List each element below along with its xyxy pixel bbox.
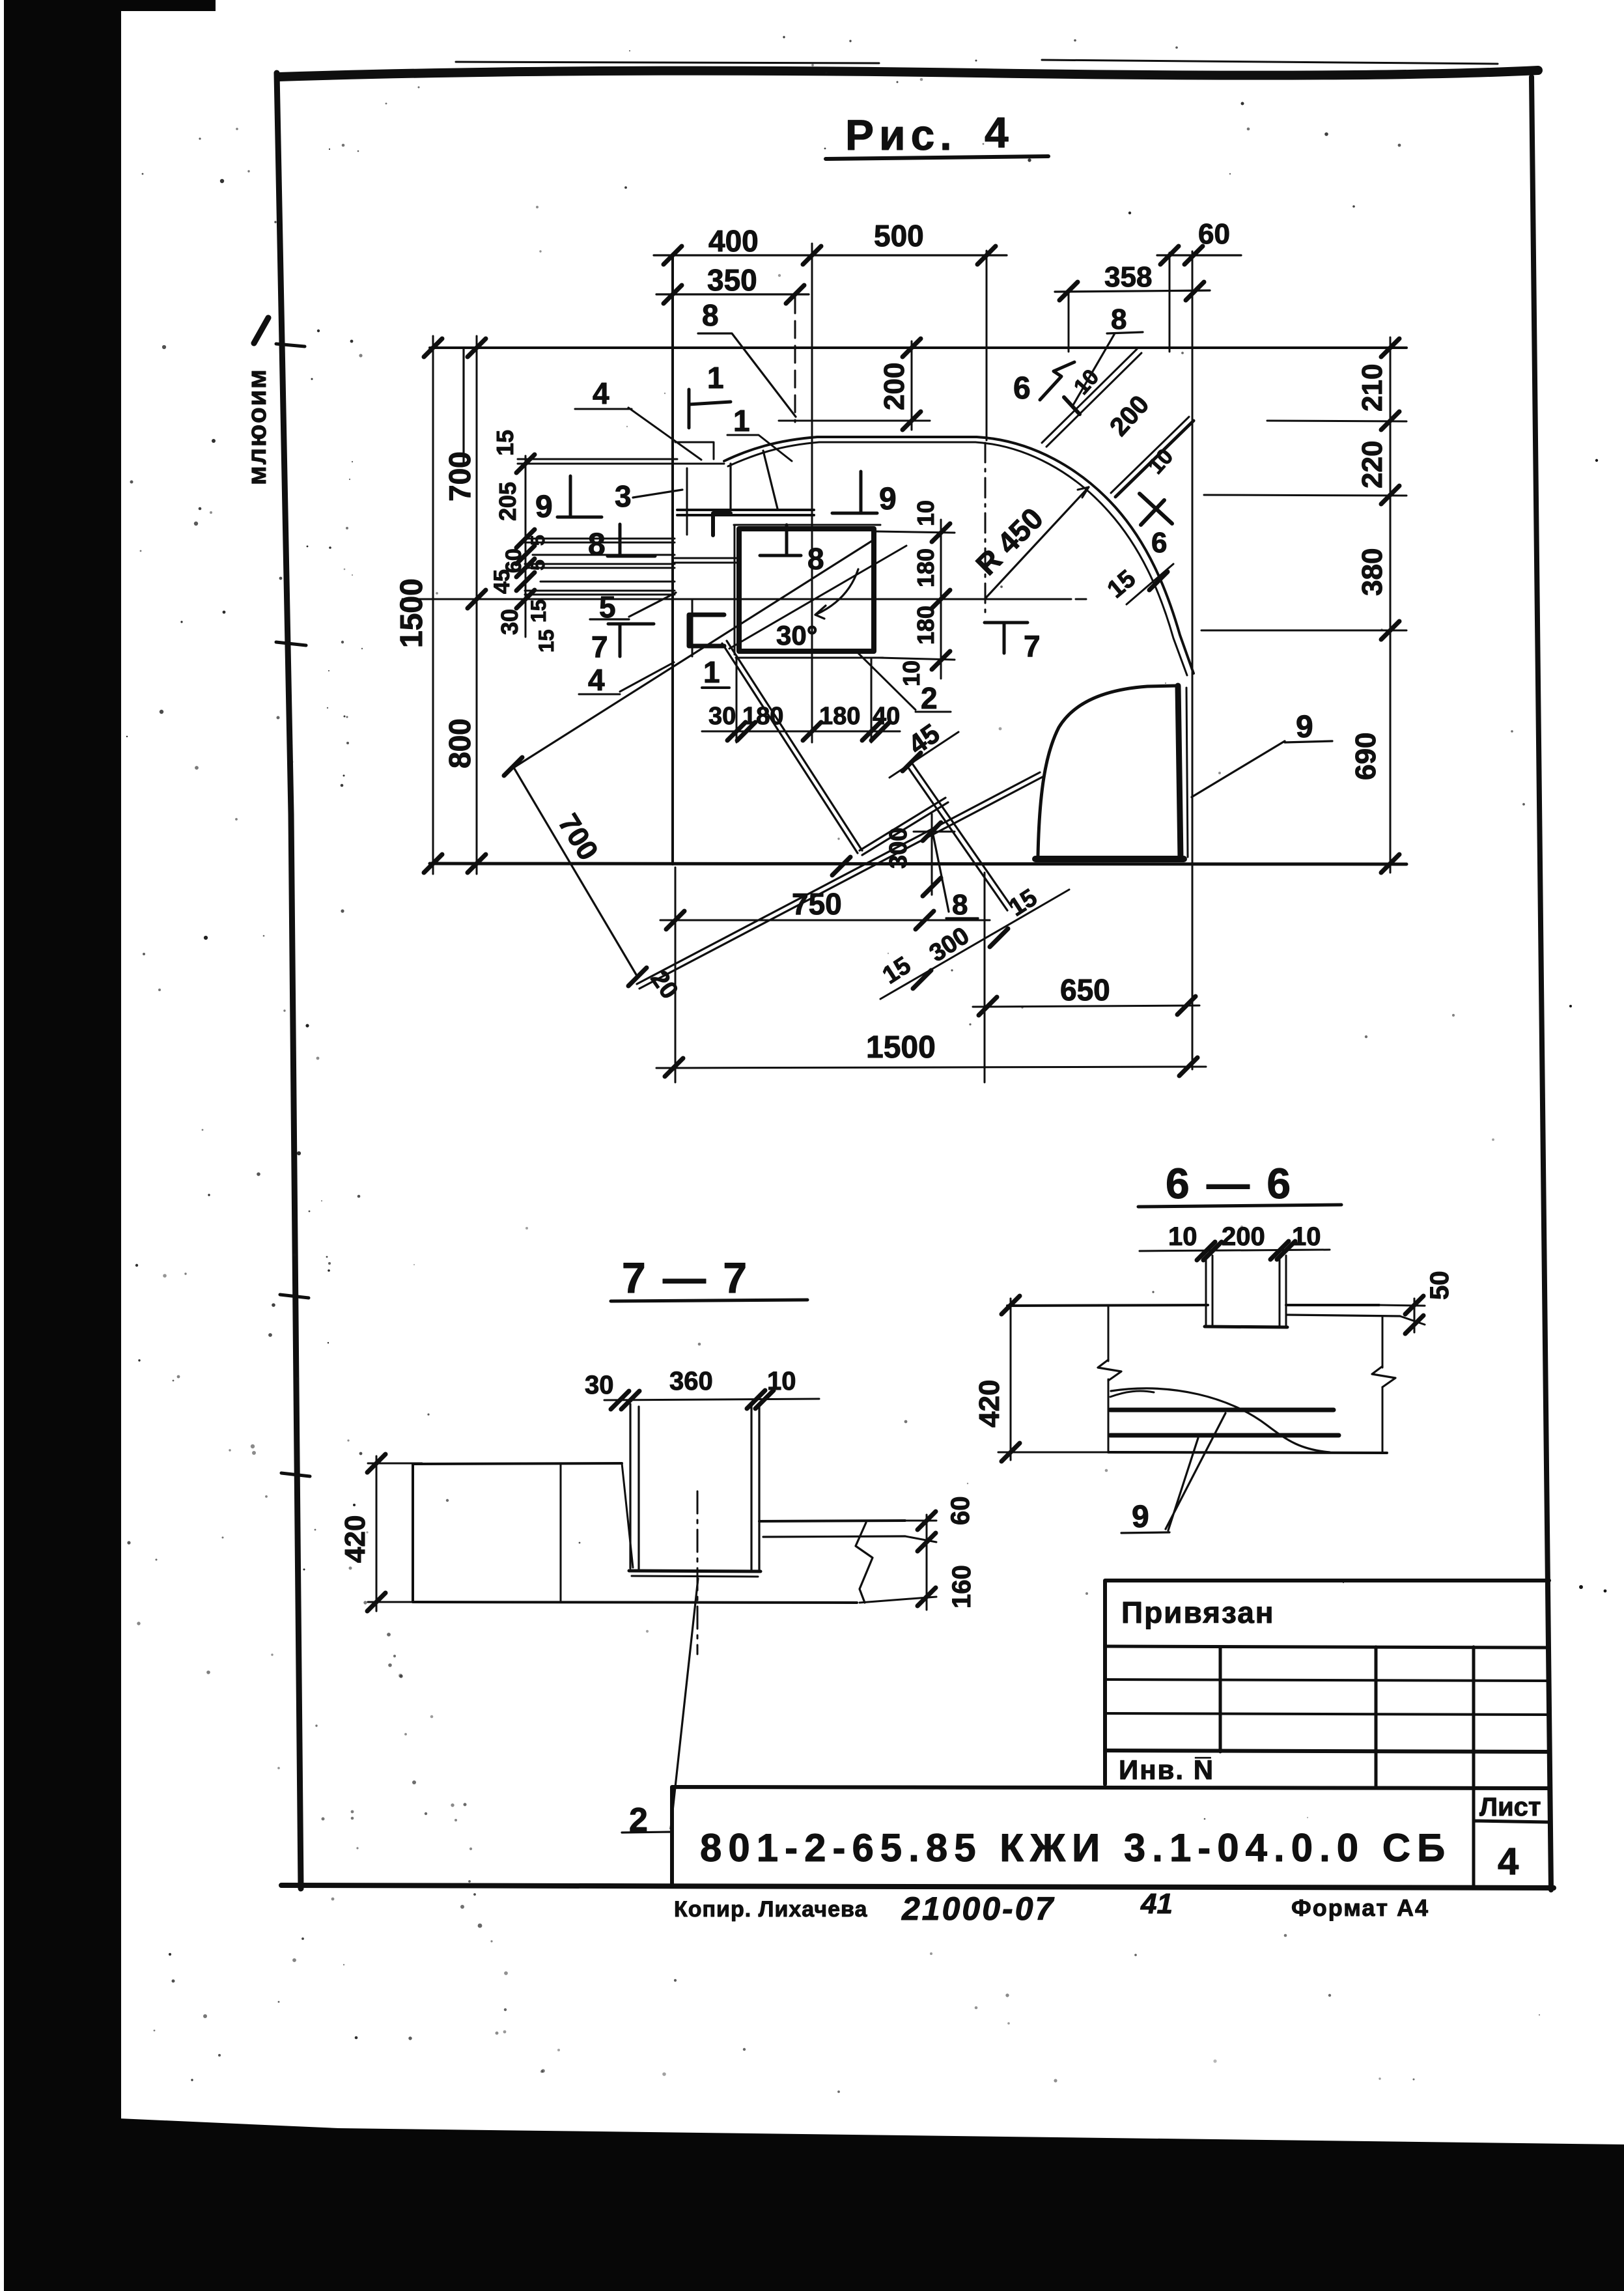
svg-text:Лист: Лист xyxy=(1479,1793,1541,1821)
stamp line under Привязан xyxy=(1105,1646,1549,1648)
svg-text:220: 220 xyxy=(1356,441,1388,488)
section mark 7 right xyxy=(985,623,1028,653)
svg-text:2: 2 xyxy=(921,681,938,715)
svg-text:15: 15 xyxy=(492,430,518,456)
svg-text:1500: 1500 xyxy=(395,578,429,648)
svg-text:15: 15 xyxy=(1004,884,1042,921)
svg-text:1: 1 xyxy=(707,361,724,395)
channel right wall (double) xyxy=(751,1404,759,1571)
plan horizontal centre axis xyxy=(402,598,1086,600)
svg-text:690: 690 xyxy=(1350,733,1382,780)
svg-text:30: 30 xyxy=(585,1371,614,1399)
section mark 9 right xyxy=(832,471,877,513)
rebar bar upper xyxy=(1110,1408,1334,1413)
svg-text:700: 700 xyxy=(443,451,477,501)
plan bottom edge xyxy=(430,864,1407,864)
svg-text:15: 15 xyxy=(535,629,558,653)
dim line 358 xyxy=(1055,290,1210,292)
slab bottom line xyxy=(1108,1452,1387,1453)
svg-text:300: 300 xyxy=(885,828,912,869)
svg-text:9: 9 xyxy=(879,482,897,516)
page frame right line xyxy=(1532,77,1551,1890)
svg-text:41: 41 xyxy=(1140,1888,1173,1920)
dim line 1500 left xyxy=(432,336,434,874)
channel left wall (double) xyxy=(630,1404,639,1569)
Лист cell divider xyxy=(1474,1787,1549,1887)
svg-text:180: 180 xyxy=(912,548,939,587)
svg-text:5: 5 xyxy=(527,559,549,570)
svg-text:650: 650 xyxy=(1060,973,1110,1007)
svg-text:210: 210 xyxy=(1356,364,1388,412)
svg-text:160: 160 xyxy=(947,1565,976,1609)
page frame top line xyxy=(279,70,1538,77)
corner opening blob curve xyxy=(1038,686,1176,856)
svg-text:200: 200 xyxy=(1222,1222,1265,1251)
slab joint vertical xyxy=(560,1463,562,1602)
svg-text:9: 9 xyxy=(1132,1500,1149,1534)
corner opening inner thin line xyxy=(1186,688,1188,857)
svg-text:10: 10 xyxy=(1168,1222,1197,1251)
svg-text:млюоим: млюоим xyxy=(243,368,272,485)
long leader diagonal xyxy=(514,541,873,767)
svg-text:1500: 1500 xyxy=(866,1030,936,1065)
page frame left line xyxy=(277,73,301,1889)
left wall stub top face xyxy=(518,459,724,464)
vertical centre chain line xyxy=(811,244,813,742)
svg-text:50: 50 xyxy=(1425,1271,1454,1300)
diagonal dim 700 xyxy=(513,766,637,977)
dim line 350 xyxy=(656,293,809,295)
svg-text:6: 6 xyxy=(1013,371,1031,406)
right dim column extensions xyxy=(1201,421,1407,630)
svg-text:180: 180 xyxy=(819,703,860,730)
svg-text:8: 8 xyxy=(702,298,719,332)
rebar hook upper xyxy=(713,513,731,535)
short lines above pocket xyxy=(675,558,739,563)
wall joint seam lines xyxy=(525,539,675,595)
svg-text:1: 1 xyxy=(703,655,720,689)
channel open end dim 15/300/15 xyxy=(880,890,1069,999)
scanner black bar left edge xyxy=(4,0,121,2291)
svg-text:Привязан: Привязан xyxy=(1121,1595,1275,1629)
plan top edge xyxy=(430,346,1407,349)
svg-text:350: 350 xyxy=(707,263,757,297)
inner corner verticals xyxy=(731,451,777,510)
dim line 750 xyxy=(660,920,990,921)
wall inner thin line xyxy=(686,468,688,535)
extension line x=1830 xyxy=(1192,251,1194,1069)
svg-text:300: 300 xyxy=(925,922,974,968)
extension line x=1515 xyxy=(986,251,988,440)
section mark 6 lower xyxy=(1140,494,1172,525)
page frame bottom line xyxy=(281,1885,1554,1888)
svg-text:7 — 7: 7 — 7 xyxy=(622,1254,749,1302)
svg-text:60: 60 xyxy=(946,1497,975,1526)
30 degree reference diagonal xyxy=(729,546,906,649)
30 degree arc with arrow xyxy=(815,569,858,615)
svg-text:Копир. Лихачева: Копир. Лихачева xyxy=(674,1897,867,1922)
top dim line 400/500 xyxy=(654,254,1007,256)
svg-text:45: 45 xyxy=(490,569,514,594)
groove bend arm (double line) xyxy=(860,798,948,855)
svg-text:Инв. N̅: Инв. N̅ xyxy=(1119,1754,1214,1785)
left joint dim line xyxy=(525,456,527,637)
slab left edge with break xyxy=(1108,1306,1110,1452)
svg-text:205: 205 xyxy=(494,482,521,521)
svg-text:40: 40 xyxy=(873,703,900,730)
svg-text:45: 45 xyxy=(903,718,945,760)
groove branch (double line) xyxy=(908,765,1012,910)
slab bottom line xyxy=(413,1602,857,1603)
extension x=1641 xyxy=(1068,293,1070,352)
svg-text:6: 6 xyxy=(1151,527,1167,559)
groove from pocket (double line) xyxy=(722,641,862,853)
svg-text:8: 8 xyxy=(1111,303,1127,335)
svg-text:5: 5 xyxy=(527,535,549,546)
right ledge top xyxy=(759,1521,905,1521)
svg-text:20: 20 xyxy=(645,966,684,1004)
svg-text:10: 10 xyxy=(1292,1222,1321,1251)
opening inner ledge lines xyxy=(677,510,814,515)
svg-text:8: 8 xyxy=(807,542,824,576)
centre axis of channel xyxy=(697,1491,699,1654)
dim 420 left xyxy=(376,1456,378,1611)
slab left edge xyxy=(412,1464,414,1602)
svg-text:9: 9 xyxy=(535,490,553,524)
svg-text:700: 700 xyxy=(552,808,604,865)
top right diagonal strip upper xyxy=(1042,349,1137,443)
channel walls (double) xyxy=(1206,1256,1286,1327)
svg-text:21000-07: 21000-07 xyxy=(901,1890,1055,1927)
slab top line xyxy=(413,1463,622,1464)
svg-text:8: 8 xyxy=(588,527,606,562)
svg-text:360: 360 xyxy=(669,1367,713,1396)
channel bottom xyxy=(1205,1327,1287,1327)
svg-text:15: 15 xyxy=(878,951,916,989)
svg-text:Формат А4: Формат А4 xyxy=(1291,1894,1429,1921)
svg-text:500: 500 xyxy=(874,219,924,253)
svg-text:180: 180 xyxy=(912,606,939,645)
svg-text:200: 200 xyxy=(1104,390,1155,442)
plan outer left edge upper xyxy=(462,348,464,462)
slanted channel side xyxy=(622,1463,633,1567)
lower wall inner vertical xyxy=(692,599,693,656)
svg-text:420: 420 xyxy=(339,1515,371,1563)
svg-text:4: 4 xyxy=(588,663,605,697)
svg-text:3: 3 xyxy=(615,479,632,513)
dim line 650 xyxy=(973,1005,1199,1007)
document number strip outline xyxy=(672,1787,1549,1887)
svg-text:1: 1 xyxy=(733,404,750,438)
svg-text:60: 60 xyxy=(1198,218,1230,250)
top dim line 60 xyxy=(1157,254,1241,256)
svg-text:9: 9 xyxy=(1296,710,1313,744)
chain line R450 centre vertical xyxy=(985,443,987,617)
slab right edge with break xyxy=(1382,1316,1384,1453)
pocket bottom dim line 30/180/180/40 xyxy=(702,731,900,733)
svg-text:4: 4 xyxy=(593,376,609,410)
svg-text:750: 750 xyxy=(792,887,842,921)
dim 420 left xyxy=(1010,1299,1012,1460)
top right diagonal strip lower xyxy=(1115,421,1194,497)
paper scan noise xyxy=(1579,1585,1583,1589)
fold tick marks on left frame xyxy=(276,344,310,1476)
dim 200 vertical right of 500 xyxy=(911,341,913,430)
section 6-6 dim line 10/200/10 xyxy=(1140,1250,1330,1251)
pocket right dim line 10/180/180/10 xyxy=(940,520,942,679)
right dim 60/160 xyxy=(926,1515,928,1610)
corner opening bottom edge xyxy=(1035,856,1184,862)
svg-text:15: 15 xyxy=(527,599,550,623)
pocket outer thin lines xyxy=(734,525,883,658)
scanner black nub top-left xyxy=(4,0,216,11)
right dim line 210/220/380/690 xyxy=(1390,337,1392,873)
channel vertical dim 300 xyxy=(914,814,955,895)
dim line 700/800 left xyxy=(476,336,478,874)
svg-text:4: 4 xyxy=(1498,1840,1519,1883)
svg-text:Рис.: Рис. xyxy=(845,111,957,159)
extension line x=1796 xyxy=(1169,253,1171,352)
extension line y=646 centre xyxy=(779,420,930,422)
svg-text:10: 10 xyxy=(767,1367,796,1396)
svg-text:10: 10 xyxy=(912,500,939,526)
svg-text:400: 400 xyxy=(708,224,759,258)
dim line 1500 bottom xyxy=(656,1067,1206,1068)
svg-text:801-2-65.85 КЖИ 3.1-04.0.0 СБ: 801-2-65.85 КЖИ 3.1-04.0.0 СБ xyxy=(700,1826,1451,1870)
svg-text:358: 358 xyxy=(1104,261,1152,293)
extension x=1037 lower xyxy=(675,867,677,1082)
svg-text:200: 200 xyxy=(878,363,910,410)
groove to corner opening (double line) xyxy=(637,772,1043,989)
stamp box "Привязан" outline xyxy=(1105,1581,1549,1784)
opening top edge curve (double line) xyxy=(724,437,1194,673)
svg-text:4: 4 xyxy=(985,108,1009,156)
stamp table horizontal lines xyxy=(1105,1680,1549,1681)
svg-text:8: 8 xyxy=(952,889,968,921)
corner opening right edge xyxy=(1178,686,1181,858)
svg-text:30: 30 xyxy=(708,703,736,730)
extension x=1512 lower xyxy=(984,873,986,1082)
section 7-7 top dim line 30/360/10 xyxy=(604,1399,819,1400)
scanner black band bottom xyxy=(119,2118,1624,2291)
svg-text:6 — 6: 6 — 6 xyxy=(1166,1159,1293,1207)
right ledge lower line xyxy=(763,1536,905,1537)
svg-text:7: 7 xyxy=(1024,629,1041,663)
svg-text:7: 7 xyxy=(591,630,608,664)
svg-text:380: 380 xyxy=(1356,548,1388,596)
concrete break curve xyxy=(1111,1388,1330,1452)
break mark right xyxy=(856,1523,873,1603)
extension dashed x=1221 xyxy=(794,296,796,422)
central pocket opening xyxy=(739,529,874,651)
R450 radius arrow line xyxy=(985,487,1089,598)
channel bottom xyxy=(629,1571,761,1571)
section mark 8 right xyxy=(760,525,801,555)
section mark 1 top bracket xyxy=(689,389,731,428)
notch detail 4 xyxy=(675,442,714,459)
dim 50 right xyxy=(1414,1299,1416,1332)
svg-text:420: 420 xyxy=(973,1380,1005,1427)
channel end dim 45 xyxy=(889,732,959,778)
section mark 7 left xyxy=(608,624,654,656)
plan left wall face line xyxy=(671,254,674,864)
svg-text:800: 800 xyxy=(443,718,477,768)
svg-text:30: 30 xyxy=(496,609,523,635)
stamp table vertical lines xyxy=(1219,1647,1222,1752)
slab top line right (double) xyxy=(1286,1304,1379,1306)
slab top line left xyxy=(1007,1305,1208,1306)
rebar hook lower xyxy=(689,615,724,646)
svg-text:30°: 30° xyxy=(776,620,818,651)
svg-text:10: 10 xyxy=(1143,444,1179,479)
rebar bar lower xyxy=(1110,1433,1339,1438)
